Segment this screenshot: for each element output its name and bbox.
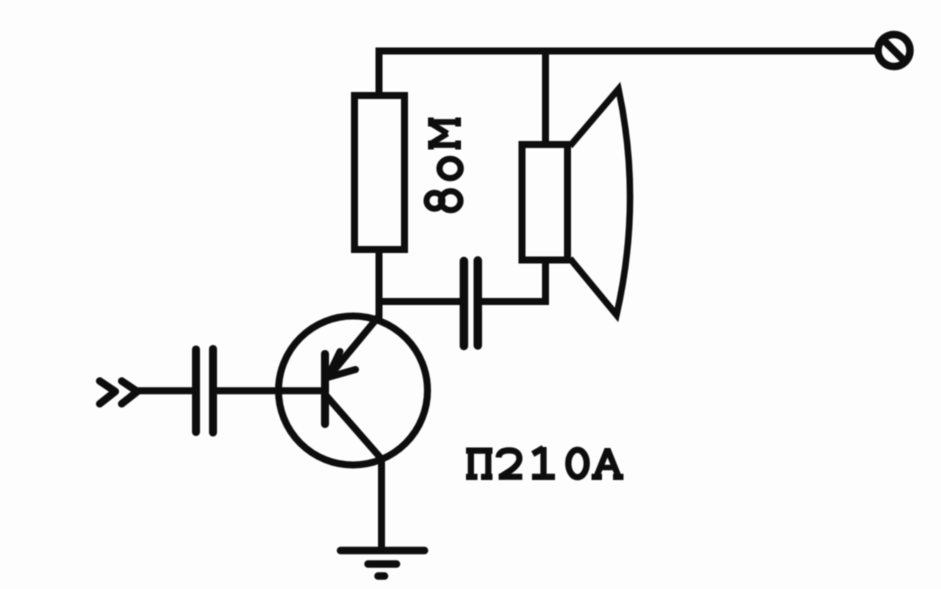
- wire top supply rail: [376, 48, 877, 55]
- wire emitter to ground: [378, 456, 385, 548]
- wire resistor bottom to collector node: [376, 249, 383, 318]
- resistor R1: [355, 96, 405, 250]
- wire C1 to base: [217, 387, 326, 394]
- wire input to capacitor C1: [137, 387, 193, 394]
- wire rail to speaker top: [542, 48, 549, 146]
- capacitor C2: [464, 261, 478, 347]
- terminal X1: [878, 35, 910, 67]
- input chevrons: [100, 381, 138, 404]
- wire collector node to capacitor C2: [376, 298, 461, 305]
- wire C2 to speaker bottom: [481, 262, 546, 302]
- transistor Q1 body: [279, 316, 428, 465]
- ground: [341, 551, 425, 577]
- transistor Q1 collector with arrow: [328, 316, 380, 378]
- speaker LS1 cone: [570, 89, 630, 315]
- transistor label P210A: [466, 447, 624, 477]
- transistor Q1 emitter: [327, 396, 382, 459]
- transistor Q1 base bar: [321, 354, 329, 424]
- wire rail to resistor top: [376, 48, 383, 96]
- value label 8oM: [427, 118, 461, 211]
- capacitor C1: [196, 349, 213, 433]
- speaker LS1 frame: [522, 145, 568, 261]
